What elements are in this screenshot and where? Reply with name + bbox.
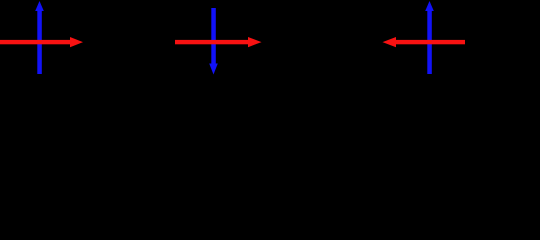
figure 1: red horizontal arrow (pointing right)	[0, 37, 83, 47]
figure 2: red horizontal arrow (pointing right)	[175, 37, 262, 47]
figure 3: red horizontal arrow (pointing left)	[383, 37, 466, 47]
figure 2: blue vertical arrow (pointing down)	[209, 8, 218, 75]
figure 3: blue vertical arrow (pointing up)	[425, 1, 434, 74]
figure 1: blue vertical arrow (pointing up)	[35, 1, 44, 74]
black band (opaque lower region of the original image)	[0, 75, 540, 159]
